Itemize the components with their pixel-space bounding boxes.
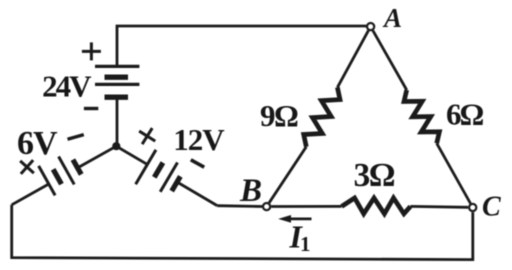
svg-text:6Ω: 6Ω [446,97,484,132]
svg-text:24V: 24V [42,69,92,104]
svg-text:1: 1 [300,232,311,256]
svg-text:6V: 6V [17,125,58,162]
svg-text:9Ω: 9Ω [260,98,298,133]
svg-text:C: C [482,191,501,222]
svg-text:12V: 12V [173,122,225,157]
svg-text:A: A [382,3,402,33]
svg-text:B: B [239,173,262,209]
svg-text:3Ω: 3Ω [354,157,395,194]
